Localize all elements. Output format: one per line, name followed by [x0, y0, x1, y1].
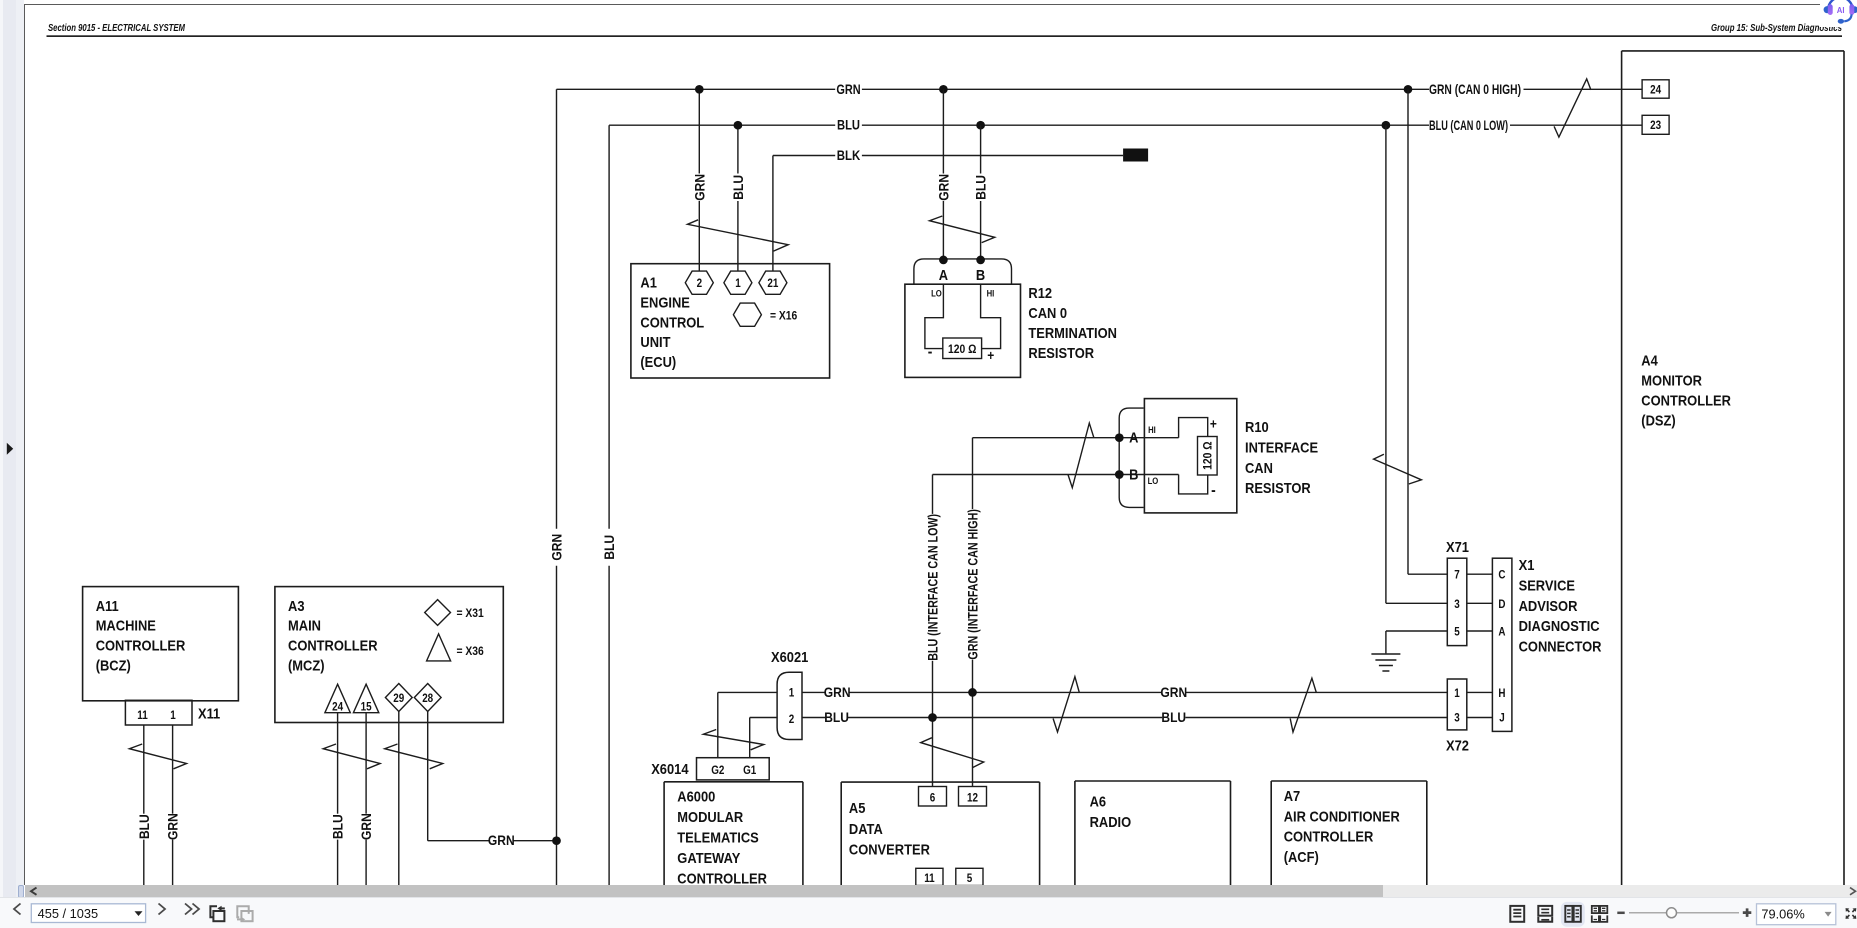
svg-text:D: D	[1498, 599, 1505, 611]
svg-text:(BCZ): (BCZ)	[96, 658, 131, 675]
pin 24 triangle of A3	[325, 684, 350, 713]
svg-text:6: 6	[930, 793, 936, 805]
twisted pair symbol at R10 wires	[1068, 423, 1094, 488]
svg-text:A6: A6	[1090, 794, 1107, 811]
svg-text:(ECU): (ECU)	[640, 354, 676, 371]
svg-text:28: 28	[422, 693, 434, 705]
svg-text:X11: X11	[198, 706, 220, 723]
wire G2 to X6021 pin 1	[718, 692, 777, 757]
wire GRN to R12 pin A	[936, 89, 952, 260]
svg-text:B: B	[976, 267, 985, 284]
connector X6021	[771, 649, 808, 740]
svg-text:GRN: GRN	[836, 81, 860, 97]
svg-text:7: 7	[1454, 570, 1460, 582]
svg-text:RESISTOR: RESISTOR	[1028, 345, 1094, 362]
wire BLU to R12 pin B	[973, 125, 989, 260]
wire BLK with terminator	[773, 147, 1148, 163]
svg-text:GRN: GRN	[358, 813, 374, 840]
wire BLK to ECU pin 21	[772, 156, 774, 272]
connector X11	[125, 700, 220, 725]
svg-text:J: J	[1499, 713, 1505, 725]
svg-text:B: B	[1129, 467, 1138, 484]
svg-text:120 Ω: 120 Ω	[948, 342, 977, 356]
svg-text:BLU: BLU	[730, 175, 746, 200]
wire X71 pin 5 to ground	[1386, 631, 1447, 653]
block A11 machine controller	[83, 587, 239, 701]
svg-text:= X16: = X16	[770, 309, 798, 323]
svg-text:GRN: GRN	[549, 534, 565, 561]
svg-text:GRN: GRN	[691, 174, 707, 201]
svg-text:1: 1	[789, 688, 795, 700]
history forward icon (disabled)	[237, 907, 253, 922]
svg-text:79.06%: 79.06%	[1761, 907, 1804, 922]
svg-text:-: -	[928, 344, 933, 361]
svg-text:CONTROLLER: CONTROLLER	[677, 871, 767, 887]
svg-text:MONITOR: MONITOR	[1641, 373, 1702, 390]
wire BLU vertical rail	[601, 125, 617, 885]
wire G1 to X6021 pin 2	[750, 718, 777, 758]
grid view icon	[1592, 906, 1608, 922]
pin 28 diamond of A3	[414, 684, 441, 712]
svg-text:1: 1	[1454, 688, 1460, 700]
twisted pair symbol at CAN 0 rails right	[1554, 79, 1591, 137]
svg-text:MAIN: MAIN	[288, 618, 321, 635]
svg-text:A7: A7	[1284, 788, 1301, 805]
svg-text:24: 24	[1650, 84, 1662, 96]
svg-text:AIR CONDITIONER: AIR CONDITIONER	[1284, 808, 1400, 825]
svg-text:1: 1	[170, 710, 176, 722]
legend diamond = X31	[425, 600, 484, 626]
connector X71	[1446, 539, 1469, 646]
wire GRN down to X71 pin 7	[1408, 89, 1447, 574]
svg-text:120 Ω: 120 Ω	[1201, 441, 1215, 470]
page left border	[24, 4, 25, 885]
wire GRN to ECU pin 2	[691, 89, 707, 271]
svg-text:GRN (INTERFACE CAN HIGH): GRN (INTERFACE CAN HIGH)	[965, 509, 981, 659]
svg-text:DIAGNOSTIC: DIAGNOSTIC	[1519, 618, 1600, 635]
svg-text:HI: HI	[1148, 425, 1156, 435]
svg-text:BLK: BLK	[837, 147, 861, 163]
svg-text:GRN (CAN 0 HIGH): GRN (CAN 0 HIGH)	[1429, 81, 1521, 97]
vertical scrollbar corner piece	[18, 885, 24, 898]
svg-text:TERMINATION: TERMINATION	[1028, 325, 1117, 342]
svg-text:GRN: GRN	[936, 174, 952, 201]
svg-text:CONTROLLER: CONTROLLER	[96, 638, 186, 655]
svg-text:BLU (CAN 0 LOW): BLU (CAN 0 LOW)	[1429, 117, 1508, 133]
pin 15 triangle of A3	[353, 684, 378, 713]
svg-text:CONNECTOR: CONNECTOR	[1519, 639, 1602, 656]
block A6000 modular telematics gateway controller	[664, 782, 803, 888]
connector X6014	[651, 758, 769, 780]
svg-text:12: 12	[967, 793, 978, 805]
page top border	[24, 4, 1857, 5]
svg-text:BLU: BLU	[1161, 709, 1186, 725]
wire BLU from X11 pin 11	[136, 725, 152, 886]
ground	[1371, 654, 1400, 671]
expand icon	[1846, 908, 1857, 919]
pin 29 diamond of A3	[385, 684, 412, 712]
connector X72	[1446, 679, 1469, 755]
svg-text:R12: R12	[1028, 285, 1052, 302]
connector X1	[1492, 558, 1512, 731]
svg-text:GRN: GRN	[824, 684, 851, 700]
wire GRN CAN 0 rail	[557, 81, 1643, 97]
legend triangle = X36	[427, 634, 484, 661]
svg-text:BLU (INTERFACE CAN LOW): BLU (INTERFACE CAN LOW)	[925, 514, 941, 661]
svg-text:BLU: BLU	[837, 117, 860, 133]
svg-text:5: 5	[1454, 627, 1460, 639]
svg-text:3: 3	[1454, 599, 1460, 611]
svg-text:+: +	[1210, 416, 1217, 432]
junction dots on CAN rails	[695, 85, 1412, 130]
sidebar expand handle triangle	[0, 0, 17, 928]
svg-text:ADVISOR: ADVISOR	[1519, 598, 1578, 615]
twisted pair symbol at X11 wires	[129, 744, 186, 769]
svg-text:X71: X71	[1446, 539, 1469, 556]
svg-text:GRN: GRN	[488, 832, 515, 848]
svg-text:21: 21	[767, 278, 779, 290]
twisted pair symbol at X71 wires	[1374, 454, 1422, 484]
pin 23 of A4	[1642, 115, 1669, 134]
svg-text:X1: X1	[1519, 557, 1535, 574]
label R10	[1245, 419, 1318, 497]
wire GRN from X6021 pin 1 to X72 pin 1	[802, 684, 1447, 700]
svg-text:H: H	[1498, 688, 1505, 700]
svg-text:A4: A4	[1641, 353, 1658, 370]
svg-text:23: 23	[1650, 120, 1661, 132]
block A1 engine control unit	[631, 264, 830, 378]
svg-text:A: A	[1498, 627, 1505, 639]
svg-text:UNIT: UNIT	[640, 334, 670, 351]
svg-text:CONTROLLER: CONTROLLER	[288, 638, 378, 655]
svg-text:BLU: BLU	[824, 709, 849, 725]
svg-text:5: 5	[967, 873, 973, 885]
wire GRN from A3 pin 15	[358, 713, 374, 886]
svg-text:CONVERTER: CONVERTER	[849, 842, 930, 859]
svg-text:A1: A1	[640, 275, 657, 292]
svg-text:1: 1	[735, 278, 741, 290]
twisted pair symbol on long GRN/BLU pair right	[1290, 678, 1316, 732]
twisted pair symbol at R12 wires	[930, 216, 995, 243]
page number input	[31, 904, 145, 923]
header: section title	[0, 0, 1857, 45]
wire GRN vertical rail	[549, 89, 565, 885]
left sidebar strip	[0, 0, 3, 897]
twisted pair symbol at ECU wires	[688, 220, 789, 251]
svg-text:29: 29	[393, 693, 404, 705]
svg-text:A6000: A6000	[677, 789, 715, 806]
svg-text:DATA: DATA	[849, 821, 883, 838]
zoom in plus	[1743, 909, 1752, 918]
block A7 air conditioner controller	[1271, 781, 1427, 886]
legend hexagon = X16	[733, 303, 797, 326]
svg-text:TELEMATICS: TELEMATICS	[677, 830, 759, 847]
svg-text:RESISTOR: RESISTOR	[1245, 480, 1311, 497]
svg-text:BLU: BLU	[330, 814, 346, 839]
wire B to R10 (BLU interface CAN low)	[925, 475, 1179, 787]
svg-text:GATEWAY: GATEWAY	[677, 850, 740, 867]
svg-text:11: 11	[924, 873, 935, 885]
svg-text:= X36: = X36	[457, 644, 485, 658]
pin 5 of A5	[956, 868, 983, 885]
svg-text:GRN: GRN	[165, 813, 181, 840]
svg-text:(DSZ): (DSZ)	[1641, 413, 1675, 430]
svg-text:(MCZ): (MCZ)	[288, 658, 325, 675]
svg-text:2: 2	[789, 714, 795, 726]
svg-text:LO: LO	[931, 289, 942, 299]
svg-text:CONTROL: CONTROL	[640, 314, 704, 331]
wire BLU from A3 pin 24	[330, 713, 346, 886]
svg-text:G2: G2	[711, 765, 724, 777]
twisted pair symbol on long GRN/BLU pair left	[1053, 677, 1079, 732]
twisted pair symbol below R10 verticals	[921, 738, 984, 768]
connector pin 1 of ECU	[724, 271, 752, 294]
wire GRN from A3 pin 28 to rail	[428, 712, 561, 849]
svg-text:C: C	[1498, 570, 1505, 582]
svg-text:HI: HI	[987, 289, 995, 299]
wire BLU CAN 0 rail	[609, 117, 1642, 133]
svg-text:CAN: CAN	[1245, 460, 1273, 477]
wires X72 to X1	[1467, 692, 1493, 717]
svg-text:MACHINE: MACHINE	[96, 618, 156, 635]
svg-text:2: 2	[697, 278, 703, 290]
wire GRN from X11 pin 1	[165, 725, 181, 886]
svg-text:+: +	[987, 347, 994, 363]
connector pin 21 of ECU	[759, 271, 787, 294]
connector pin 2 of ECU	[685, 271, 713, 294]
svg-text:LO: LO	[1148, 476, 1159, 486]
next page chevron	[159, 904, 166, 915]
wire BLU down to X71 pin 3	[1386, 125, 1447, 603]
bottom toolbar	[0, 897, 1857, 928]
svg-text:X72: X72	[1446, 738, 1469, 755]
wire BLU to ECU pin 1	[730, 125, 746, 271]
svg-text:A11: A11	[96, 598, 119, 615]
svg-text:3: 3	[1454, 713, 1460, 725]
pin 11 of A5	[916, 868, 943, 885]
svg-text:-: -	[1211, 482, 1216, 499]
zoom out minus	[1617, 912, 1624, 915]
resistor R10 interface CAN	[1115, 399, 1237, 513]
AI assistant logo top right	[1820, 0, 1857, 27]
twisted pair symbol at A3 pins 24/15	[323, 744, 380, 769]
svg-text:CAN 0: CAN 0	[1028, 305, 1067, 322]
pin 6 of A5	[919, 787, 947, 807]
block A6 radio	[1075, 781, 1231, 886]
svg-text:X6021: X6021	[771, 649, 808, 666]
svg-text:A5: A5	[849, 800, 866, 817]
block A3 main controller	[275, 587, 503, 723]
svg-text:AI: AI	[1836, 6, 1844, 15]
svg-text:A3: A3	[288, 598, 305, 615]
svg-text:11: 11	[137, 710, 148, 722]
twisted pair symbol at G2/G1 wires	[703, 730, 763, 750]
prev page chevron	[14, 904, 21, 915]
svg-text:BLU: BLU	[601, 535, 617, 560]
svg-text:CONTROLLER: CONTROLLER	[1284, 829, 1374, 846]
continuous view icon	[1538, 906, 1552, 922]
block A5 data converter	[841, 782, 1039, 885]
svg-text:(ACF): (ACF)	[1284, 849, 1319, 866]
svg-text:SERVICE: SERVICE	[1519, 577, 1575, 594]
pin 12 of A5	[959, 787, 987, 807]
svg-text:MODULAR: MODULAR	[677, 809, 743, 826]
pin 24 of A4	[1642, 80, 1669, 98]
zoom slider	[1629, 912, 1739, 914]
twisted pair symbol at A3 pins 29/28	[385, 744, 443, 769]
history back icon	[210, 907, 224, 922]
svg-text:GRN: GRN	[1160, 684, 1187, 700]
wire from A3 pin 29	[398, 712, 400, 886]
svg-text:RADIO: RADIO	[1090, 814, 1132, 831]
svg-text:G1: G1	[743, 765, 757, 777]
svg-text:455 / 1035: 455 / 1035	[38, 907, 99, 922]
svg-text:X6014: X6014	[651, 761, 689, 778]
block A4 monitor controller	[1622, 51, 1844, 886]
resistor R12 CAN 0 termination	[905, 256, 1021, 378]
svg-text:ENGINE: ENGINE	[640, 295, 690, 312]
horizontal scrollbar	[25, 885, 1857, 897]
svg-text:15: 15	[361, 701, 373, 713]
svg-text:= X31: = X31	[457, 606, 485, 620]
svg-text:A: A	[939, 267, 948, 284]
svg-text:R10: R10	[1245, 419, 1269, 436]
svg-text:INTERFACE: INTERFACE	[1245, 439, 1318, 456]
label X1 service advisor diagnostic connector	[1519, 557, 1602, 656]
svg-text:BLU: BLU	[973, 175, 989, 200]
svg-text:BLU: BLU	[136, 814, 152, 839]
svg-text:CONTROLLER: CONTROLLER	[1641, 393, 1731, 410]
wire BLU from X6021 pin 2 to X72 pin 3	[802, 709, 1447, 725]
single page view icon	[1510, 906, 1524, 922]
svg-text:A: A	[1129, 430, 1138, 447]
zoom percent box	[1757, 904, 1836, 925]
wire A to R10 (GRN interface CAN high)	[965, 438, 1179, 787]
svg-text:24: 24	[332, 701, 344, 713]
label R12	[1028, 285, 1117, 362]
wires X71 to X1	[1467, 574, 1493, 631]
facing pages icon (selected)	[1561, 902, 1585, 927]
last page chevrons	[185, 904, 192, 915]
